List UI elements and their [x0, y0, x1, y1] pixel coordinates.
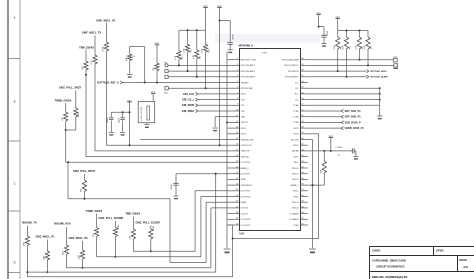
svg-text:SPIO/COMPOT: SPIO/COMPOT [284, 65, 299, 67]
IC U24 right pin 36 stub [300, 196, 308, 198]
svg-text:C: C [14, 182, 16, 186]
svg-text:TRMB_GWXX: TRMB_GWXX [55, 99, 72, 103]
resistor R66 47K [132, 217, 134, 230]
capacitor C12 .47 [352, 148, 354, 153]
wire U24 pin15 left [140, 139, 228, 141]
junction long line 1 [219, 144, 221, 146]
IC U24 left pin 24 stub [228, 190, 240, 192]
resistor R67 100R [150, 226, 152, 230]
svg-text:APVD:: APVD: [436, 248, 444, 252]
ground below C10 [228, 49, 233, 51]
svg-text:4.7K: 4.7K [184, 48, 186, 53]
svg-text:D1-: D1- [295, 88, 299, 90]
wire pullup rail [179, 29, 206, 31]
ground below schematic left of U24 [224, 248, 231, 250]
IC U24 right pin 55 stub [300, 87, 308, 89]
svg-text:R51: R51 [349, 46, 351, 49]
resistor R40 4.7K pullup [178, 30, 180, 50]
resistor R20 431R [104, 42, 108, 51]
crystal X1 inner element [147, 106, 150, 120]
node VGB_DATA_P [308, 121, 341, 123]
svg-text:BLK-: BLK- [294, 162, 299, 164]
svg-text:VGB_DATA_P: VGB_DATA_P [345, 121, 361, 124]
IC U24 right pin 54 stub [300, 93, 308, 95]
svg-text:L1000F: L1000F [336, 147, 344, 149]
ground bottom middle [309, 248, 316, 250]
svg-text:GWZ_MXCL_P6: GWZ_MXCL_P6 [68, 236, 88, 240]
svg-text:GRI_CLK: GRI_CLK [183, 92, 194, 96]
IC U24 right pin 58 stub [300, 70, 308, 72]
svg-text:OSC1: OSC1 [241, 128, 247, 130]
svg-text:100R: 100R [118, 225, 120, 230]
IC U24 right pin 47 stub [300, 133, 308, 135]
highlight band above IC [215, 34, 320, 43]
svg-text:110R: 110R [79, 254, 81, 259]
IC U24 left pin 29 stub [228, 218, 240, 220]
svg-text:100nF: 100nF [107, 117, 109, 123]
ferrite bead FB4 [165, 64, 168, 67]
svg-text:TMB_GWXX: TMB_GWXX [125, 212, 140, 216]
resistor R43 4.7K pullup [205, 30, 207, 44]
svg-text:R41: R41 [190, 49, 192, 52]
IC U24 left pin 5 stub [228, 82, 240, 84]
wire U24 right pin47 loop down [308, 133, 319, 135]
svg-text:TRM_GWXX: TRM_GWXX [79, 45, 94, 49]
zone divider B/C [8, 140, 20, 142]
svg-text:4.7K: 4.7K [334, 45, 336, 50]
wire bus1 [133, 250, 195, 252]
ground below R30 [127, 74, 132, 76]
wire U24 pin24 to bottom bus [195, 190, 227, 192]
IC U24 left pin 10 stub [228, 110, 240, 112]
svg-text:XWTD: XWTD [293, 145, 300, 147]
svg-text:GRI_CS_s: GRI_CS_s [182, 98, 195, 102]
IC U24 right pin 48 stub [300, 127, 308, 129]
IC U24 left pin 7 stub [228, 93, 240, 95]
IC U24 left pin 18 stub [228, 156, 240, 158]
svg-text:IC-PORT2: IC-PORT2 [241, 191, 251, 193]
svg-text:TRESET: TRESET [241, 82, 250, 84]
resistor R41 4.7K pullup [187, 30, 189, 44]
wire U24 pin21 left branch [176, 173, 228, 175]
svg-text:GPIO3/SLEEP3: GPIO3/SLEEP3 [241, 77, 256, 79]
resistor R22 1.5K [84, 61, 88, 70]
svg-text:TCLAMB0: TCLAMB0 [289, 212, 299, 215]
svg-text:R53: R53 [371, 46, 373, 49]
svg-text:ASMB_1: ASMB_1 [291, 184, 300, 187]
node VGBB_DATA_P1 [308, 127, 341, 129]
svg-text:43R: 43R [126, 57, 128, 61]
svg-text:110R: 110R [44, 255, 46, 260]
svg-text:100nF: 100nF [232, 34, 234, 40]
svg-text:TXMB_GWXX: TXMB_GWXX [86, 209, 103, 213]
IC U24 right pin 43 stub [300, 156, 308, 158]
IC U24 left pin 22 stub [228, 178, 240, 180]
svg-text:AA_AB: AA_AB [292, 150, 299, 153]
svg-text:GWZ_PULL_BRAT: GWZ_PULL_BRAT [73, 169, 96, 173]
svg-text:IC-PORT4: IC-PORT4 [241, 219, 251, 221]
svg-text:CHKD:: CHKD: [372, 248, 380, 252]
wire loop down to bottom bus [232, 239, 234, 277]
svg-text:1.5K: 1.5K [62, 117, 64, 122]
svg-text:431R: 431R [103, 46, 105, 51]
svg-text:BLK+: BLK+ [294, 156, 300, 158]
IC U24 left pin 17 stub [228, 150, 240, 152]
svg-text:TDI: TDI [241, 105, 245, 107]
IC U24 right pin 44 stub [300, 150, 308, 152]
svg-text:TCLAMB1: TCLAMB1 [289, 218, 299, 221]
resistor R24 4.7K [75, 91, 77, 109]
IC U24 left pin 23 stub [228, 184, 240, 186]
node GRT_RXB_P1 [308, 116, 341, 118]
svg-text:R42: R42 [200, 56, 202, 59]
wire R21 to U24 [94, 64, 96, 151]
wire U24 pin11 to ground [215, 116, 227, 118]
IC U24 left pin 27 stub [228, 207, 240, 209]
svg-text:GWZ_PULL_XRST: GWZ_PULL_XRST [59, 86, 82, 90]
junction on BUTTON1_RST_A at R network [144, 82, 146, 84]
IC U24 left pin 30 stub [228, 224, 240, 226]
svg-text:OSC2: OSC2 [241, 134, 247, 136]
svg-text:R43: R43 [208, 49, 210, 52]
svg-text:4.7K: 4.7K [78, 112, 80, 117]
svg-text:43R: 43R [63, 251, 65, 255]
svg-text:CSTIO0: CSTIO0 [241, 208, 249, 210]
svg-text:RSD+: RSD+ [293, 191, 299, 193]
svg-text:TSER: TSER [293, 225, 299, 227]
wire GWF_MXCL_TX vertical [94, 36, 96, 56]
svg-text:GRT_RXB_P1: GRT_RXB_P1 [345, 116, 362, 119]
capacitor C21 100nF [122, 112, 124, 117]
svg-text:D: D [14, 261, 16, 265]
wire link J2 to U24 [168, 76, 227, 78]
title block outline [370, 247, 474, 279]
svg-text:TCM0: TCM0 [293, 105, 299, 107]
IC U24 left pin 9 stub [228, 104, 240, 106]
svg-text:43R: 43R [24, 242, 26, 246]
junction TP1 wire [205, 87, 207, 89]
resistor R61 110R [46, 240, 48, 252]
svg-text:RSD-: RSD- [294, 196, 299, 198]
wire bus6 bottom long [27, 276, 232, 278]
svg-text:CMOTOOTL: CMOTOOTL [241, 145, 253, 147]
IC U24 right pin 51 stub [300, 110, 308, 112]
svg-text:TCM3: TCM3 [293, 122, 299, 124]
resistor R25 47K [84, 174, 86, 180]
svg-text:TCK: TCK [241, 99, 246, 101]
svg-text:MT9076B A: MT9076B A [239, 44, 253, 48]
wire GRI_CLK to U24 [198, 93, 228, 95]
resistor R60 43R [26, 226, 28, 237]
svg-text:RSLC0: RSLC0 [292, 168, 299, 170]
node GRT_RXA_P1 [308, 110, 341, 112]
svg-text:SPIM: SPIM [241, 179, 246, 181]
node BUTTON1_BODY [308, 70, 367, 72]
svg-text:DWG NO. XX(XWXX)(X)-XX: DWG NO. XX(XWXX)(X)-XX [372, 275, 408, 279]
ground below C20 [109, 131, 114, 133]
IC U24 left pin 20 stub [228, 167, 240, 169]
svg-text:GRT_RXA_P1: GRT_RXA_P1 [345, 110, 362, 113]
sheet left border line [7, 0, 9, 279]
wire bus4 [67, 267, 211, 269]
svg-text:4.7K: 4.7K [193, 54, 195, 59]
resistor R30 43R with ground [129, 47, 131, 55]
wire R23 down to U24 line [65, 130, 67, 162]
wire U24 pin27 to bottom bus [211, 207, 228, 209]
wire GRI_CS_s to U24 [198, 99, 228, 101]
resistor R21 4.7K [93, 55, 97, 64]
svg-text:R40: R40 [182, 57, 184, 60]
svg-text:1.5K: 1.5K [82, 66, 84, 71]
svg-text:U24: U24 [240, 233, 245, 236]
wire U24 right pin53 to common [308, 99, 380, 101]
IC U24 left pin 12 stub [228, 121, 240, 123]
wire U24 pin30 loop under IC [228, 224, 233, 226]
resistor R55 10K to VCC net [323, 151, 325, 161]
svg-text:GWF_MXCL_TX: GWF_MXCL_TX [82, 31, 102, 35]
IC U24 left pin 21 stub [228, 173, 240, 175]
wire stub net y198 [68, 198, 170, 200]
wire U24 right pin54 to common [308, 93, 380, 95]
IC U24 left pin 15 stub [228, 139, 240, 141]
jumper link J2 [165, 75, 168, 78]
svg-text:RSLC4: RSLC4 [292, 208, 299, 210]
ground below C21 [120, 131, 125, 133]
wire U24 pin21 branch down to bus5 [215, 174, 217, 272]
svg-text:SPIO/CSMCLAMB: SPIO/CSMCLAMB [282, 59, 300, 62]
resistor R52 4.7K pullup right [358, 31, 360, 38]
wire GWF_MXCL_P1 vertical [106, 23, 108, 42]
wire to cap C11 [319, 26, 324, 28]
wire R22 to U24 [85, 70, 87, 157]
svg-text:CASTRB-BC: CASTRB-BC [241, 184, 253, 187]
IC U24 left pin 4 stub [228, 76, 240, 78]
svg-text:TCM2: TCM2 [293, 117, 299, 119]
zone divider C/D [8, 210, 20, 212]
IC U24 left pin 6 stub [228, 87, 240, 89]
svg-text:100nF: 100nF [327, 30, 329, 36]
IC U24 right pin 35 stub [300, 201, 308, 203]
IC U24 left pin 14 stub [228, 133, 240, 135]
wire cap branch horizontal [111, 111, 129, 113]
svg-text:RSLC1: RSLC1 [292, 174, 299, 176]
IC U24 right pin 37 stub [300, 190, 308, 192]
IC U24 left pin 19 stub [228, 161, 240, 163]
wire U24 right pin60 to test jumper [308, 59, 394, 61]
IC U24 left pin 11 stub [228, 116, 240, 118]
IC U24 right pin 56 stub [300, 82, 308, 84]
svg-text:CARD NAME: QWXX CARD: CARD NAME: QWXX CARD [372, 258, 406, 262]
wire loop under IC horizontal [233, 238, 319, 240]
svg-text:GWXX_CRYSTAL: GWXX_CRYSTAL [140, 107, 143, 122]
zone divider A/B [8, 58, 20, 60]
svg-text:GND: GND [164, 93, 169, 95]
wire U24 right pin52 to common corner [308, 104, 380, 106]
wire BUTTON1_RST_A to U24 [123, 82, 228, 84]
wire joining R23 R24 [66, 129, 76, 131]
IC U24 right pin 41 stub [300, 167, 308, 169]
svg-text:CSTIO1: CSTIO1 [241, 213, 249, 215]
svg-text:MXLINK_TX: MXLINK_TX [22, 220, 37, 224]
wire VCC stem to rail [205, 8, 207, 31]
svg-text:CIRCUIT SCHEMATICS: CIRCUIT SCHEMATICS [376, 264, 404, 268]
svg-text:VGBB_DATA_P1: VGBB_DATA_P1 [345, 127, 365, 130]
svg-text:FB4: FB4 [164, 62, 167, 64]
resistor R64 47K [96, 214, 98, 228]
IC U24 right pin 31 stub [300, 224, 308, 226]
svg-text:MXLINK_RXA: MXLINK_RXA [54, 222, 71, 226]
node BUTTON1_ALERT [308, 76, 367, 78]
resistor R50 4.7K pullup right [337, 31, 339, 38]
IC U24 left pin 1 stub [228, 59, 240, 61]
IC U24 left pin 16 stub [228, 144, 240, 146]
svg-text:A: A [14, 16, 16, 20]
IC U24 left pin 3 stub [228, 70, 240, 72]
IC U24 left pin 8 stub [228, 99, 240, 101]
wire U24 pin25 to bottom bus [201, 196, 228, 198]
svg-text:TMSOTH: TMSOTH [241, 151, 250, 153]
svg-text:GWZ_PULL_XCOMP: GWZ_PULL_XCOMP [98, 216, 123, 220]
wire U24 right pin55 to common [308, 87, 380, 89]
svg-text:100R: 100R [153, 226, 155, 231]
svg-text:FACTORY_TEST: FACTORY_TEST [241, 59, 258, 62]
wire right pullup rail [338, 30, 368, 32]
resistor R62 43R [66, 227, 68, 245]
junction L1000F [323, 150, 325, 152]
sheet zone column line [19, 0, 21, 279]
wire TP1 to U24 [168, 87, 227, 89]
IC U24 right pin 49 stub [300, 121, 308, 123]
resistor R23 1.5K [65, 103, 67, 112]
IC U24 right pin 32 stub [300, 218, 308, 220]
wire bus3 [170, 262, 206, 264]
svg-text:IC-PORT1: IC-PORT1 [241, 174, 251, 176]
svg-text:XSTO: XSTO [293, 128, 299, 130]
IC U24 right pin 42 stub [300, 161, 308, 163]
ground below crystal [146, 123, 148, 125]
capacitor C11 100nF [321, 35, 326, 37]
svg-text:SPIO/SLEEPO: SPIO/SLEEPO [285, 77, 299, 79]
svg-text:4.7K: 4.7K [202, 48, 204, 53]
IC U24 left pin 13 stub [228, 127, 240, 129]
capacitor C26 100nF to ground [175, 174, 177, 184]
resistor R51 4.7K pullup right [346, 31, 348, 38]
IC U24 right pin 52 stub [300, 104, 308, 106]
IC U24 right pin 33 stub [300, 213, 308, 215]
wire U24 pin12 to ground rail [226, 121, 228, 123]
svg-text:GWZ_PULL_XCOMT: GWZ_PULL_XCOMT [135, 220, 160, 224]
ground right common [377, 115, 382, 117]
svg-text:CASYNC: CASYNC [241, 155, 250, 158]
capacitor C10 100nF [228, 43, 233, 45]
svg-text:4.7K: 4.7K [356, 45, 358, 50]
svg-text:GRI_MOSI: GRI_MOSI [182, 103, 195, 107]
junction on TRM_GWXX drop [85, 74, 87, 76]
IC U24 right pin 59 stub [300, 64, 308, 66]
svg-text:SPIO/MOSI: SPIO/MOSI [288, 71, 299, 73]
junction rail [187, 29, 189, 31]
svg-text:BUTTON1_ALERT: BUTTON1_ALERT [371, 76, 389, 79]
svg-text:VY1: VY1 [394, 57, 398, 59]
IC U24 right pin 38 stub [300, 184, 308, 186]
IC U24 right pin 60 stub [300, 59, 308, 61]
resistor R63 110R [82, 241, 84, 250]
svg-text:RSLC3: RSLC3 [292, 202, 299, 204]
wire bus3 riser from stub net [169, 199, 171, 263]
svg-text:XCLK: XCLK [241, 94, 247, 96]
svg-text:IC-PORT5: IC-PORT5 [241, 225, 251, 227]
svg-text:4.7K: 4.7K [91, 60, 93, 65]
IC U24 left pin 26 stub [228, 201, 240, 203]
ground at C12 [353, 155, 358, 157]
resistor R31 10K pullup [156, 45, 158, 63]
svg-text:E1-: E1- [296, 99, 300, 101]
svg-text:A01: A01 [463, 266, 468, 269]
IC U24 left pin 25 stub [228, 196, 240, 198]
svg-text:BUTTON1_RST_A: BUTTON1_RST_A [97, 80, 119, 84]
resistor R53 4.7K pullup right [367, 31, 369, 38]
svg-text:RSLC2: RSLC2 [292, 179, 299, 181]
wire top of R30 over to BUTTON1_RST_A wire [130, 46, 145, 48]
wire GRI_MOSI to U24 [198, 104, 228, 106]
svg-text:100nF: 100nF [119, 117, 121, 123]
wire U24 right pin46 to ground [308, 139, 313, 141]
wire U24 pin26 to bottom bus [206, 201, 227, 203]
svg-text:4.7K: 4.7K [364, 45, 366, 50]
svg-text:GRI_MISO: GRI_MISO [182, 109, 194, 113]
svg-text:TDO: TDO [241, 111, 246, 113]
IC U24 right pin 45 stub [300, 144, 308, 146]
IC U24 left pin 28 stub [228, 213, 240, 215]
svg-text:IC-PORT3: IC-PORT3 [241, 196, 251, 198]
svg-text:SPICS/CSN0: SPICS/CSN0 [241, 88, 254, 90]
wire GRI_MISO to U24 [198, 110, 228, 112]
IC U24 left pin 2 stub [228, 64, 240, 66]
wire bus5 [27, 271, 215, 273]
wire link J1 to U24 [168, 70, 227, 72]
wire bus2 [97, 256, 201, 258]
wire U24 right pin38 branch [308, 184, 325, 186]
wire common vertical right [379, 88, 381, 115]
IC U24 right pin 46 stub [300, 139, 308, 141]
svg-text:RXMF: RXMF [241, 202, 248, 204]
junction pullups at rows [178, 64, 180, 66]
test point link TP1 [165, 87, 168, 90]
wire TRM_GWXX vertical [85, 49, 87, 61]
IC U24 right pin 39 stub [300, 178, 308, 180]
wire branch to cap C10 [220, 20, 231, 22]
ground bar below JP2 [393, 68, 398, 69]
jumper JP2 [394, 64, 398, 67]
svg-text:RSIG: RSIG [294, 134, 299, 136]
wire VCC stem down [129, 102, 131, 145]
svg-text:TRSTN: TRSTN [241, 122, 248, 124]
ground below C11 [321, 43, 326, 45]
junction flag stem [219, 20, 221, 22]
resistor R42 4.7K pullup [196, 30, 198, 50]
wire U24 right pin59 to jumper [308, 64, 394, 66]
IC U24 right pin 34 stub [300, 207, 308, 209]
svg-text:4.7K: 4.7K [175, 55, 177, 60]
net L1000F wire [308, 150, 353, 152]
ground below C26 [173, 195, 178, 197]
ground at U24 pin11 [213, 127, 218, 129]
svg-text:TCM1: TCM1 [293, 111, 299, 113]
svg-text:BUTTON1_BODY: BUTTON1_BODY [371, 71, 388, 73]
wire FB4 to U24 [168, 64, 227, 66]
crystal X1 GWXX_CRYSTAL box [138, 101, 155, 122]
svg-text:ACTWD: ACTWD [291, 138, 299, 141]
